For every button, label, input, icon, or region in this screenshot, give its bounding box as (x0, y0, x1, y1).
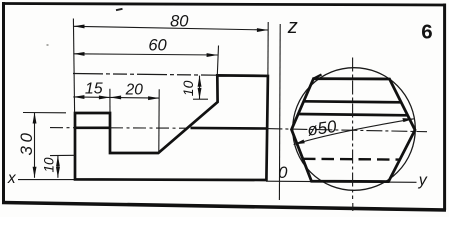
circumscribed circle (293, 68, 416, 191)
svg-text:10: 10 (42, 157, 57, 173)
y axis line (continues under views to label y) (266, 181, 417, 182)
centerline continuation to profile view (266, 129, 427, 132)
dimension 10 (upper) extension stub bottom (193, 98, 208, 100)
dimension 60 arrowheads (73, 52, 84, 56)
dimension 20 extension line right (158, 89, 160, 153)
front view outline: cut hexagonal prism (75, 75, 268, 180)
dimension 20 arrowheads (110, 96, 121, 100)
svg-text:y: y (418, 172, 428, 189)
dimension 10 (lower) extension line top (50, 154, 75, 156)
dimension 30 line (34, 112, 36, 177)
diameter leader arrowheads (294, 140, 305, 145)
dimension 80 extension line right (part edge extended) (267, 22, 269, 76)
chord edge z=30 (298, 114, 408, 115)
x axis line (18, 179, 75, 181)
svg-text:15: 15 (85, 80, 103, 97)
svg-text:60: 60 (148, 37, 167, 55)
svg-text:6: 6 (421, 21, 432, 44)
svg-text:x: x (7, 170, 17, 187)
centerline tick below frame (352, 203, 354, 211)
dimension 15 arrowheads (73, 95, 84, 99)
frame border bottom (2, 203, 446, 211)
svg-text:0: 0 (278, 164, 288, 182)
dimension 30 extension line top (23, 112, 66, 114)
chord edge z=33 (304, 101, 402, 102)
dimension 60 extension line right (217, 46, 218, 76)
visible prism side edge (left cut portion) (75, 127, 110, 130)
frame border right (443, 4, 446, 211)
frame border top (2, 4, 445, 6)
prism axis centerline (dash-dot through notch) (50, 127, 186, 130)
dimension 30 arrowheads (33, 112, 37, 123)
visible prism side edge (right portion) (191, 127, 267, 130)
svg-text:80: 80 (170, 13, 189, 31)
hidden edge z=10 (dashed) (303, 158, 400, 161)
dimension 10 (upper) line (199, 76, 201, 99)
stroke overshoot at hexagon top-left corner (314, 75, 322, 79)
svg-text:30: 30 (17, 130, 36, 156)
dimension 15/20 line (73, 97, 159, 98)
dimension 80 line (73, 26, 268, 30)
frame border left (2, 2, 5, 204)
hexagon outline (292, 79, 416, 182)
svg-text:10: 10 (180, 80, 196, 96)
original prism top centerline (dash-dot) (73, 74, 217, 76)
dimension 10 (lower) line (57, 156, 59, 178)
dimension 15 extension line middle (109, 89, 111, 113)
stray scan speck left area (47, 44, 49, 46)
svg-text:z: z (287, 16, 298, 38)
stray scan mark above dimension 80 (116, 9, 123, 10)
dimension 80 arrowheads (73, 25, 84, 29)
svg-text:20: 20 (125, 81, 144, 98)
dimension 10 (upper) arrowheads (198, 76, 202, 87)
diameter leader line (294, 119, 414, 145)
dimension 60 line (73, 54, 217, 55)
z axis line (278, 24, 281, 200)
vertical centerline (352, 58, 354, 200)
dimension 80 extension line left (73, 19, 74, 113)
dimension 10 (lower) arrowheads (56, 156, 60, 167)
